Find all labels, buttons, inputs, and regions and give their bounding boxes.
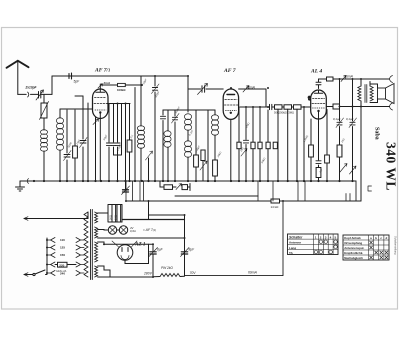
resistor x239 (237, 107, 247, 181)
svg-text:69mA: 69mA (248, 271, 258, 275)
heater line thick (122, 205, 185, 223)
wire x113 cap (111, 104, 116, 156)
grid cap feed AF7 (188, 76, 223, 112)
tube U1 AF 7/1 (93, 89, 109, 119)
wire x352 cap 0,1uF (349, 79, 357, 181)
resistor x311 (309, 119, 314, 181)
connector ticks on B+ line (346, 194, 350, 201)
svg-text:150: 150 (60, 253, 65, 257)
wire x339 cap 0,1uF (336, 79, 344, 181)
tiny value labels (66, 78, 345, 174)
wire x268 (267, 110, 269, 181)
svg-text:50Ω: 50Ω (109, 215, 113, 220)
anode top line 36mA (333, 76, 390, 82)
svg-text:50kΩ50kΩ0,3MΩ: 50kΩ50kΩ0,3MΩ (274, 111, 294, 115)
svg-text:Glühs 2A: Glühs 2A (56, 270, 67, 273)
secondary 4V AL4 (95, 212, 98, 223)
svg-text:Antenne: Antenne (289, 241, 301, 245)
coil L5 double (184, 114, 191, 181)
grid line y103 (85, 104, 130, 110)
wire x327 (326, 110, 328, 182)
antenna (7, 61, 29, 95)
svg-text:280V: 280V (143, 272, 153, 276)
table switch positions (288, 234, 339, 255)
bracket top right (390, 76, 393, 83)
wire x175 trimmer (172, 110, 180, 181)
mains switch (24, 270, 47, 276)
svg-text:d: d (385, 236, 387, 240)
B+ bottom line (185, 201, 284, 276)
table1 marks (314, 240, 337, 254)
bus junction dots (34, 180, 353, 182)
switch arrow x148 (146, 151, 153, 181)
svg-text:0,3: 0,3 (308, 96, 312, 101)
resistor x260 (258, 107, 262, 181)
anode wire AF7 43mA (239, 86, 266, 108)
tube U2 AF 7 (223, 89, 238, 119)
HV line to AZ1 (98, 242, 153, 244)
wire x121 (114, 104, 122, 156)
vertical x184.5 (184, 215, 186, 276)
resistor on wire x339 (337, 145, 342, 157)
speaker LS (370, 84, 394, 104)
svg-text:2mA: 2mA (103, 81, 111, 85)
table2 text (344, 236, 387, 260)
wire x278 (277, 109, 279, 181)
wire to top bus (51, 76, 53, 94)
anode wire with 2mA arrow (98, 84, 118, 89)
wire x117 (115, 104, 120, 182)
secondary HV (95, 242, 98, 262)
svg-text:70V: 70V (190, 271, 197, 275)
svg-text:340 WL: 340 WL (384, 142, 399, 191)
fuse box (55, 262, 76, 267)
bracket lower right (390, 103, 393, 110)
wire coil L1 to bus (43, 151, 45, 181)
svg-text:Antennenspul.: Antennenspul. (344, 246, 364, 250)
switch arrow x203 (200, 150, 207, 181)
verticals bus to line201 (126, 181, 305, 201)
resistor on AL4 anode top (319, 77, 334, 81)
line y215 (149, 214, 185, 216)
svg-text:100kΩ: 100kΩ (117, 88, 126, 92)
right edge wire x361 (360, 107, 362, 202)
wire x135 (134, 88, 136, 182)
wire x304 (303, 107, 305, 181)
secondary 4V lamps (95, 227, 98, 238)
AZ1 heater loop (98, 244, 153, 277)
resistor PW 2k (153, 274, 185, 277)
svg-text:Nachabgleich: Nachabgleich (344, 256, 363, 260)
resistor 0,3M (292, 105, 302, 109)
resistor 50k b (282, 105, 292, 109)
svg-text:36mA: 36mA (344, 75, 354, 79)
line y201 B+ (126, 200, 361, 202)
power transformer T1 primary (84, 212, 88, 277)
labels voltages (59, 238, 65, 275)
top bus (52, 75, 188, 77)
wire x88 (87, 103, 89, 181)
coil L2 (56, 118, 63, 151)
capacitor 0,1uF coupling (270, 104, 272, 109)
table tone switch (343, 235, 389, 260)
wire x83 with trimmer cap (75, 96, 87, 181)
electrolytic 8uF b (181, 248, 190, 257)
table2 marks (369, 241, 388, 259)
speaker lower line (340, 106, 390, 108)
svg-text:5pF: 5pF (74, 80, 81, 84)
box on wire x327 (325, 155, 330, 163)
wire x208 (207, 110, 209, 181)
wire x253 arrow (251, 107, 255, 181)
svg-text:AZ 1: AZ 1 (134, 242, 146, 248)
tube U3 AL 4 (311, 90, 327, 119)
svg-text:50Ω: 50Ω (114, 215, 118, 220)
svg-text:AF 7: AF 7 (223, 68, 236, 74)
grid cap AL4 (316, 79, 321, 89)
svg-text:0,1µF: 0,1µF (346, 117, 354, 121)
electrolytic 8uF a (149, 244, 158, 277)
svg-text:AF 7/1: AF 7/1 (94, 68, 110, 74)
cathode wire 4mA (93, 118, 99, 182)
switch arrow x343 (340, 164, 347, 173)
AL4 bottom wire (316, 119, 321, 181)
mains top lead (24, 217, 88, 221)
svg-text:Ortsempfang: Ortsempfang (344, 241, 362, 245)
switch arrow x352 (350, 166, 357, 174)
tube U4 AZ 1 rectifier (112, 241, 137, 260)
table1 text (289, 235, 337, 255)
junction dots mid (104, 76, 361, 277)
resistors 50 Ohm pair (98, 205, 122, 223)
resistor 14kOhm (271, 199, 280, 203)
wire x163 with cap (160, 110, 215, 181)
transformer core (91, 210, 93, 280)
svg-text:b: b (375, 236, 377, 240)
svg-text:43mA: 43mA (246, 86, 256, 90)
wire antenna to trimmer (18, 92, 29, 97)
resistor 100kOhm (118, 83, 143, 86)
secondary 4V AZ1 (95, 266, 98, 277)
svg-text:125: 125 (60, 246, 65, 250)
svg-text:≈ AF 7(1): ≈ AF 7(1) (143, 228, 156, 232)
resistor R x75 (73, 110, 78, 181)
voltage selector column (47, 238, 55, 276)
tube bottom wire (99, 119, 101, 182)
screen resistor box right of AL4 (327, 104, 340, 109)
anode load line y107 (240, 106, 311, 108)
svg-text:AL 4: AL 4 (310, 69, 322, 75)
coil L1 antenna (40, 130, 47, 151)
pilot lamp 2 (117, 226, 128, 234)
capacitor 2x10pF trimmer (31, 90, 53, 100)
coil L6 + resistor x215 (211, 110, 218, 181)
svg-text:Kopf-Schalt.: Kopf-Schalt. (344, 236, 361, 240)
resistor x196 (194, 110, 199, 181)
svg-text:0,1µF: 0,1µF (333, 117, 341, 121)
ground (16, 181, 25, 191)
resistor row below bus (160, 181, 190, 191)
svg-text:Schalter: Schalter (289, 236, 303, 240)
connector bracket bus left (27, 179, 28, 184)
wire x125 (125, 104, 127, 182)
svg-text:2x10pF: 2x10pF (25, 86, 38, 90)
output transformer T2 (358, 79, 373, 107)
antenna coil circuit vertical (40, 94, 49, 130)
wire x67 with capacitor (64, 110, 72, 181)
arrow x270 (266, 142, 277, 149)
pilot lamp 1 (98, 226, 117, 234)
svg-text:14 kΩ: 14 kΩ (271, 205, 280, 209)
wire node line y110 (60, 109, 85, 181)
svg-text:110: 110 (60, 238, 65, 242)
wire x287 (287, 109, 289, 181)
tube AF7 bottom wire (230, 119, 232, 181)
svg-text:PW 2kΩ: PW 2kΩ (161, 266, 173, 270)
resistor x129 (127, 104, 132, 182)
cap below bus x125 (122, 181, 130, 195)
heater/HT junction verticals (148, 201, 150, 220)
wire x297 (296, 109, 298, 181)
heater return line y238 (98, 237, 185, 239)
wire x246 cap (243, 107, 248, 181)
bracket x368 y188 (368, 186, 372, 191)
svg-text:Lang: Lang (289, 246, 296, 250)
wire x109 with cap (106, 104, 111, 182)
svg-text:Empfindlichk.: Empfindlichk. (344, 251, 363, 255)
primary tap forks (76, 238, 84, 276)
trimmer x155 (152, 76, 160, 181)
line y196 (175, 195, 258, 197)
resistor 50k a (275, 105, 283, 109)
capacitor 5pF on top bus (69, 73, 72, 79)
bottom bus (20, 181, 356, 201)
svg-text:Schalterstellung: Schalterstellung (394, 236, 398, 255)
coil L4 (164, 110, 171, 181)
coil L3 (137, 76, 144, 181)
svg-text:Saba: Saba (374, 127, 380, 140)
